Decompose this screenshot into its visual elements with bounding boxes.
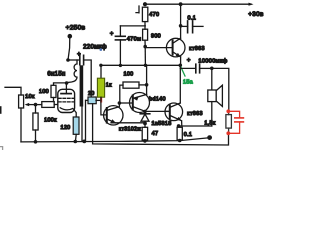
capacitor 220мкф — [77, 45, 107, 98]
wire supply down — [68, 36, 70, 60]
svg-text:900: 900 — [151, 34, 161, 40]
potentiometer 10k body — [19, 95, 24, 108]
wire Q2 base — [119, 102, 132, 104]
wire Q2 top vertical — [146, 65, 148, 94]
annotation 15a green — [181, 67, 193, 86]
node rail2 right junction — [179, 64, 183, 68]
inductor primary winding — [67, 60, 77, 83]
wire speaker return — [179, 125, 212, 127]
wire +30v top rail — [145, 3, 251, 5]
red highlight mark — [100, 98, 102, 103]
node +250v terminal dot — [68, 34, 73, 39]
resistor 900 — [143, 26, 161, 47]
stray stub mark — [136, 6, 139, 13]
wire Q4 base — [101, 100, 107, 115]
capacitor 0.1 top — [181, 16, 203, 33]
svg-text:100к: 100к — [44, 118, 57, 124]
resistor 100 middle — [120, 72, 147, 104]
resistor grid series — [36, 102, 58, 108]
svg-text:1,5к: 1,5к — [204, 120, 216, 126]
transistor Q2 bd140 — [130, 93, 166, 113]
wire pot bottom to ground rail — [20, 108, 22, 142]
wire input top-left — [5, 87, 21, 95]
resistor 100k — [33, 105, 57, 142]
artifact corner mark — [0, 147, 3, 150]
svg-text:кт863: кт863 — [189, 46, 205, 52]
wire collector Q1 up — [180, 4, 182, 38]
node +30v terminal — [248, 3, 264, 19]
svg-text:1n5818: 1n5818 — [151, 121, 171, 127]
wire to capacitor 220uF — [68, 59, 79, 61]
node rail2 dots — [99, 64, 147, 67]
wire base Q3 — [145, 110, 169, 112]
tube cathode — [60, 108, 76, 117]
svg-text:100: 100 — [123, 72, 133, 78]
svg-text:6н15п: 6н15п — [47, 72, 65, 78]
node speaker junction — [210, 67, 214, 71]
resistor 1,5k — [204, 111, 231, 133]
node Q2 base junction — [118, 101, 122, 105]
potentiometer 10k label — [25, 94, 35, 100]
svg-text:0.1: 0.1 — [184, 132, 193, 138]
node base junction Q1 — [143, 45, 147, 49]
node ground blob — [207, 135, 212, 140]
svg-text:470м: 470м — [127, 37, 142, 43]
svg-text:220мкф: 220мкф — [83, 45, 107, 51]
wire collector kt863 lower — [179, 65, 181, 103]
svg-text:+250в: +250в — [66, 25, 86, 32]
transformer core — [80, 65, 84, 106]
svg-text:100: 100 — [39, 89, 49, 95]
wire plate lead — [65, 83, 67, 94]
node cap 0.1 junction — [179, 24, 183, 28]
node junction cap tap — [66, 58, 70, 62]
node plate junction — [65, 81, 69, 85]
svg-text:10000мкф: 10000мкф — [198, 58, 227, 64]
tube plate — [61, 93, 71, 95]
node top rail junction — [179, 2, 183, 6]
resistor 47 — [142, 127, 158, 142]
resistor 100 — [39, 83, 67, 102]
tube V1 envelope — [58, 89, 75, 112]
node ground dots — [34, 140, 87, 144]
wire junction to rail2 — [144, 47, 146, 66]
resistor 120 (cyan) — [60, 117, 79, 141]
wire secondary side — [81, 107, 83, 141]
transistor Q4 kt3102 — [104, 103, 142, 133]
svg-text:15а: 15а — [183, 80, 193, 86]
transistor Q3 kt863 lower — [165, 103, 203, 126]
wire mid-left vertical bus — [85, 100, 87, 141]
wire base Q1 — [145, 47, 172, 49]
svg-text:470: 470 — [149, 12, 159, 18]
svg-text:20: 20 — [88, 91, 95, 97]
wire rail2 — [101, 64, 180, 66]
resistor 20 (cyan) — [86, 91, 101, 104]
wire to right branch — [212, 68, 229, 111]
svg-text:кт3102ж: кт3102ж — [119, 127, 141, 133]
wire ground rail — [21, 138, 209, 142]
capacitor 10000мкф — [180, 58, 227, 73]
artifact left edge tick — [0, 107, 2, 113]
transistor Q1 kt863 — [166, 38, 204, 57]
node wiper junction — [34, 103, 38, 107]
wire emitter bus — [111, 122, 145, 124]
wire lower return line — [93, 104, 229, 145]
node Q2 emitter junction — [143, 110, 147, 114]
svg-text:+: + — [187, 58, 191, 64]
diode 1n5818 — [140, 112, 171, 128]
svg-text:bd140: bd140 — [149, 97, 166, 103]
blue fleck artifact — [100, 48, 103, 51]
svg-text:+: + — [110, 32, 114, 38]
wire emitter Q1 down — [180, 57, 182, 65]
capacitor 470м electrolytic — [110, 26, 141, 65]
node 100 resistor junction — [145, 83, 149, 87]
potentiometer wiper arrow — [25, 103, 36, 106]
node +250v supply label — [66, 25, 86, 32]
capacitor red parallel — [226, 109, 243, 135]
svg-text:120: 120 — [60, 125, 70, 131]
svg-text:47: 47 — [152, 131, 159, 137]
tube grid dashed — [59, 98, 75, 102]
node 0.1 resistor top — [177, 124, 181, 128]
svg-text:+30в: +30в — [248, 11, 264, 18]
svg-text:10к: 10к — [25, 94, 35, 100]
speaker — [208, 68, 223, 126]
svg-text:1к: 1к — [106, 83, 112, 89]
resistor 0.1 — [177, 127, 192, 142]
wire top cross — [120, 25, 145, 27]
svg-text:кт863: кт863 — [187, 111, 203, 117]
resistor 1k (green) — [97, 65, 112, 100]
resistor 470 — [142, 2, 159, 26]
tube 6n15p label — [47, 72, 65, 78]
